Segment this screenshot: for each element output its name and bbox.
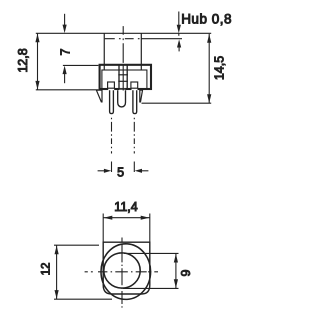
- wire: bottom-band gap center: [119, 88, 125, 90]
- svg-text:7: 7: [59, 48, 73, 55]
- wire: pressed-position solid extension to right: [141, 38, 182, 40]
- svg-text:11,4: 11,4: [114, 200, 137, 214]
- dimension 12,8 bottom arrowhead: [35, 81, 39, 90]
- wire: pin-tip extension line: [142, 102, 212, 104]
- svg-text:9: 9: [179, 269, 193, 276]
- switch body outline: [100, 65, 151, 89]
- wire: bottom extension line of 12,8: [36, 89, 99, 91]
- wire: bottom-band gap left: [108, 88, 114, 90]
- right solder lug: [140, 90, 143, 102]
- dimension 7 upper arrow: [64, 14, 66, 27]
- plunger left side: [103, 33, 105, 70]
- dimension 5 left arrow: [98, 170, 105, 172]
- dimension 9 top extension line: [124, 252, 179, 254]
- dimension 12 top extension line: [54, 244, 99, 246]
- left round pin: [110, 90, 114, 113]
- dimension 11,4 left extension line: [102, 214, 104, 243]
- switch body inner cavity: [102, 70, 147, 89]
- dimension Hub upper arrow: [178, 12, 180, 26]
- dimension 5 right arrow: [135, 169, 142, 173]
- bottom view button circle: [104, 253, 140, 288]
- centerline of side view: [122, 26, 124, 90]
- center contact staple: [118, 90, 126, 107]
- left pin slot: [108, 82, 115, 88]
- left solder lug: [96, 90, 102, 102]
- dimension 5 left tick: [111, 162, 113, 173]
- svg-text:12: 12: [41, 263, 53, 276]
- dimension 11,4 line: [103, 217, 150, 219]
- svg-text:12,8: 12,8: [16, 48, 30, 72]
- dimension 12 bottom extension line: [54, 298, 112, 300]
- left pin centerline: [111, 118, 113, 154]
- wire: body-top extension line: [63, 64, 99, 66]
- wire: top extension line (released plunger position): [36, 32, 211, 34]
- dimension 14,5 line: [208, 34, 210, 103]
- bottom view collar circle: [101, 244, 151, 300]
- dimension 7 lower arrow: [63, 66, 67, 75]
- dimension 12,8 line: [37, 33, 39, 90]
- plunger right side: [140, 33, 142, 70]
- dimension Hub lower arrow: [177, 39, 181, 47]
- right pin centerline: [133, 118, 135, 154]
- dimension 12 line: [56, 245, 58, 299]
- vertical centerline of bottom view: [121, 238, 123, 309]
- dimension 11,4 right extension line: [149, 214, 151, 243]
- dimension 12,8 top arrowhead: [35, 34, 39, 43]
- svg-text:Hub 0,8: Hub 0,8: [181, 11, 232, 26]
- dimension 5 right tick: [133, 162, 135, 173]
- horizontal centerline of bottom view: [85, 271, 158, 273]
- bottom view square body: [103, 242, 150, 294]
- svg-text:14,5: 14,5: [212, 56, 226, 80]
- wire: pressed-position dash-dot line in plunger: [105, 38, 142, 40]
- wire: bottom-band gap right: [132, 88, 138, 90]
- right pin slot: [131, 82, 138, 88]
- right round pin: [133, 90, 137, 113]
- center contact ladder: [119, 65, 127, 89]
- svg-text:5: 5: [117, 166, 124, 180]
- dimension 9 bottom extension line: [123, 287, 179, 289]
- dimension 9 line: [175, 253, 177, 288]
